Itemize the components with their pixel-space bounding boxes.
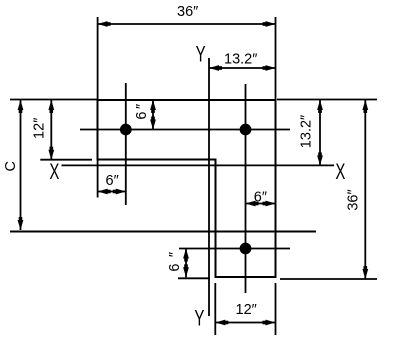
svg-text:13.2″: 13.2″ — [224, 52, 257, 68]
svg-text:Y: Y — [194, 307, 204, 332]
svg-text:6″: 6″ — [254, 190, 267, 206]
svg-text:C: C — [3, 161, 19, 171]
svg-text:13.2″: 13.2″ — [299, 115, 315, 148]
svg-text:6″: 6″ — [106, 173, 119, 189]
svg-text:12″: 12″ — [236, 302, 257, 318]
svg-text:36″: 36″ — [346, 189, 362, 210]
svg-text:12″: 12″ — [32, 118, 48, 139]
svg-text:X: X — [49, 160, 59, 185]
svg-text:6″: 6″ — [134, 104, 150, 120]
svg-text:X: X — [335, 160, 345, 185]
svg-text:36″: 36″ — [177, 4, 198, 20]
svg-text:Y: Y — [196, 43, 206, 68]
